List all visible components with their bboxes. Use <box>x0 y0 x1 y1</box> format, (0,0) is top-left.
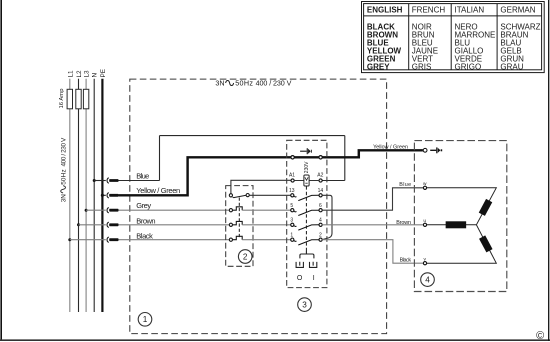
label 3N 50Hz 400/230V vertical <box>60 137 67 202</box>
svg-text:50Hz: 50Hz <box>60 169 67 185</box>
circled 3 <box>298 298 312 312</box>
page border bottom <box>0 339 550 341</box>
junction dot black on L1 <box>68 238 71 241</box>
earth plug symbol <box>430 147 442 153</box>
svg-text:GRIS: GRIS <box>412 62 432 71</box>
connector pin yellow/green <box>109 194 118 197</box>
coil terminal A1 <box>291 179 294 182</box>
svg-text:Blue: Blue <box>136 172 149 181</box>
motor winding wire w <box>427 188 497 225</box>
wire contact 14 to terminal 2 <box>322 195 332 239</box>
wire brown from L2 to connector <box>79 224 106 226</box>
circled 1 <box>138 313 152 327</box>
svg-text:5: 5 <box>290 203 293 209</box>
table german column <box>500 22 540 71</box>
svg-text:400 / 230 V: 400 / 230 V <box>60 137 67 167</box>
wire coil to A2 <box>309 180 319 182</box>
supply line N <box>93 79 95 312</box>
svg-text:I: I <box>313 275 315 282</box>
wire blue from N to connector <box>94 180 106 182</box>
svg-text:Blue: Blue <box>399 182 411 188</box>
contactor coil U <box>304 175 309 186</box>
connector socket grey <box>107 208 109 213</box>
supply line PE <box>101 79 103 312</box>
wire contact 6 to motor w <box>322 188 423 210</box>
supply line L3 <box>85 79 87 312</box>
motor coil v <box>479 235 493 252</box>
coil terminal A2 <box>319 179 322 182</box>
actuator button I cup <box>310 262 317 268</box>
svg-text:©: © <box>536 330 544 342</box>
motor terminal u <box>423 223 426 226</box>
switch linkage dashed <box>238 198 240 240</box>
supply line L1 <box>69 79 71 312</box>
svg-text:Yellow / Green: Yellow / Green <box>373 145 408 151</box>
svg-text:L2: L2 <box>76 70 83 78</box>
svg-text:Grey: Grey <box>136 201 151 210</box>
wire pole1 to contact 13 <box>249 194 290 196</box>
switch dashed box 2 <box>226 186 253 267</box>
svg-text:Black: Black <box>400 257 412 263</box>
junction dot yellow/green on PE <box>101 194 104 197</box>
connector socket blue <box>107 178 109 183</box>
svg-text:GREY: GREY <box>367 62 390 71</box>
svg-text:4: 4 <box>319 218 322 224</box>
wire grey to switch <box>119 209 230 211</box>
wire contact 2 to motor v <box>322 240 423 264</box>
svg-text:ENGLISH: ENGLISH <box>367 5 403 14</box>
wire blue stub to A2 <box>322 180 345 182</box>
svg-text:16 Amp: 16 Amp <box>59 88 65 109</box>
wire yellow/green through contactor <box>293 156 321 158</box>
svg-text:PE: PE <box>100 69 107 78</box>
junction dot blue on N <box>93 179 96 182</box>
svg-text:GRAU: GRAU <box>500 62 523 71</box>
svg-text:13: 13 <box>289 188 295 194</box>
svg-text:3N: 3N <box>215 79 224 88</box>
wire A1 to coil <box>294 180 304 182</box>
motor terminal v <box>423 262 426 265</box>
svg-text:14: 14 <box>318 188 324 194</box>
switch pole3 contact <box>229 221 242 226</box>
contact 13-14 <box>291 194 323 201</box>
motor coil u <box>446 221 467 228</box>
actuator fork <box>300 251 314 258</box>
fuse F1 on L1 <box>67 89 72 109</box>
label 3N 50Hz 400/230V top <box>215 79 291 88</box>
svg-text:ITALIAN: ITALIAN <box>455 5 485 14</box>
switch pole1 left terminal <box>229 194 232 197</box>
earth terminal circle <box>423 148 427 152</box>
wire blue riser up <box>159 136 161 181</box>
connector pin grey <box>109 209 118 212</box>
wire black from L1 to connector <box>70 239 106 241</box>
fuse F3 on L3 <box>83 89 88 109</box>
contactor dashed box 3 <box>287 140 327 287</box>
actuator button O cup <box>296 262 303 268</box>
svg-text:2: 2 <box>319 233 322 239</box>
switch pole4 contact <box>229 236 242 241</box>
wire pole3 to contact 3 <box>242 224 291 226</box>
circled 2 <box>238 250 252 264</box>
svg-text:1: 1 <box>143 315 148 324</box>
circled 4 <box>421 273 435 287</box>
svg-text:GRIGO: GRIGO <box>455 62 482 71</box>
svg-text:Brown: Brown <box>396 220 411 226</box>
wire blue horizontal to riser <box>119 180 160 182</box>
connector socket yellow/green <box>107 193 109 198</box>
svg-text:FRENCH: FRENCH <box>412 5 446 14</box>
wire brown to switch <box>119 224 230 226</box>
fuse F2 on L2 <box>76 89 81 109</box>
svg-text:Black: Black <box>136 232 153 241</box>
main dashed enclosure box 1 <box>130 79 387 334</box>
wire yellow/green to earth terminal <box>321 150 423 157</box>
table italian column <box>455 22 496 71</box>
connector socket black <box>107 237 109 242</box>
svg-text:400 / 230 V: 400 / 230 V <box>256 79 292 88</box>
wire pole2 to contact 5 <box>242 209 291 211</box>
wire black to switch <box>119 239 230 241</box>
svg-text:GERMAN: GERMAN <box>500 5 535 14</box>
svg-text:A1: A1 <box>289 173 295 179</box>
svg-text:4: 4 <box>425 275 430 284</box>
table header row <box>367 5 536 14</box>
svg-text:6: 6 <box>319 203 322 209</box>
svg-text:50Hz: 50Hz <box>235 79 253 88</box>
wire contact 4 to motor u <box>322 224 423 226</box>
contactor linkage dashed <box>305 186 307 251</box>
contactor earth terminal left <box>291 156 294 159</box>
wire grey from L3 to connector <box>86 209 106 211</box>
motor terminal w <box>423 186 426 189</box>
switch pole2 contact <box>229 207 242 212</box>
junction dot grey on L3 <box>85 209 88 212</box>
svg-text:L3: L3 <box>84 70 91 78</box>
language table frame <box>362 2 545 73</box>
motor coil w <box>479 199 493 216</box>
contact 1-2 <box>291 238 323 245</box>
svg-text:u: u <box>423 219 426 224</box>
page border left <box>0 0 2 341</box>
svg-text:1: 1 <box>290 233 293 239</box>
page border right <box>548 0 550 341</box>
wire pole4 to contact 1 <box>242 239 291 241</box>
table french column <box>412 22 438 71</box>
contact 3-4 <box>291 223 323 230</box>
svg-text:L1: L1 <box>67 70 74 78</box>
svg-text:Brown: Brown <box>136 217 155 226</box>
svg-text:3: 3 <box>302 300 307 309</box>
svg-text:O: O <box>297 275 303 282</box>
connector socket brown <box>107 222 109 227</box>
svg-text:w: w <box>423 182 427 187</box>
wire yellow/green from PE to connector <box>102 194 105 196</box>
motor winding wire u <box>427 224 477 226</box>
wire blue top run <box>160 135 345 137</box>
svg-text:N: N <box>92 73 99 78</box>
svg-text:3N: 3N <box>60 194 67 203</box>
supply line L2 <box>78 79 80 312</box>
switch pole1 right terminal <box>246 194 249 197</box>
plug symbol row1 <box>300 148 312 154</box>
wire yellow/green thick run <box>119 157 293 195</box>
svg-text:2: 2 <box>243 252 248 261</box>
connector pin brown <box>109 223 118 226</box>
switch pole1 blade <box>233 195 247 197</box>
connector pin blue <box>109 179 118 182</box>
motor winding wire v <box>427 225 497 263</box>
junction dot brown on L2 <box>77 223 80 226</box>
motor dashed box 4 <box>414 141 506 292</box>
svg-text:230V: 230V <box>304 161 310 173</box>
contactor earth terminal right <box>319 156 322 159</box>
svg-text:A2: A2 <box>317 173 323 179</box>
svg-text:3: 3 <box>290 218 293 224</box>
connector pin black <box>109 238 118 241</box>
wire switch pole1 to A1 <box>231 180 291 193</box>
contact 5-6 <box>291 209 323 216</box>
svg-text:Yellow / Green: Yellow / Green <box>136 186 180 195</box>
wire blue drop to A2 <box>344 136 346 181</box>
table english column <box>367 22 402 71</box>
